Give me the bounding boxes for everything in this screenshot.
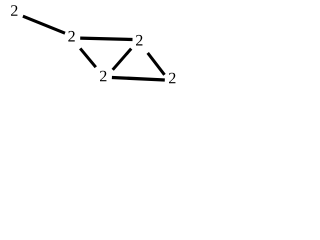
background xyxy=(0,0,186,96)
node 2 label "2" (center) xyxy=(68,31,74,42)
wire: edge node4-node3 xyxy=(113,49,132,70)
wire: edge node2-node3 xyxy=(80,38,132,39)
node 1 label "2" (top left) xyxy=(11,5,17,16)
node 4 label "2" (bottom center) xyxy=(100,71,106,82)
wire: edge node4-node5 xyxy=(112,78,165,81)
wire: edge node2-node4 xyxy=(80,48,96,67)
wire: edge node1-node2 xyxy=(23,16,65,33)
wire: edge node3-node5 xyxy=(148,53,165,75)
node 5 label "2" (bottom right) xyxy=(169,73,175,84)
node 3 label "2" (right) xyxy=(136,35,142,46)
graph diagram: 5 vertices labeled 2, 6 edges xyxy=(0,0,186,96)
